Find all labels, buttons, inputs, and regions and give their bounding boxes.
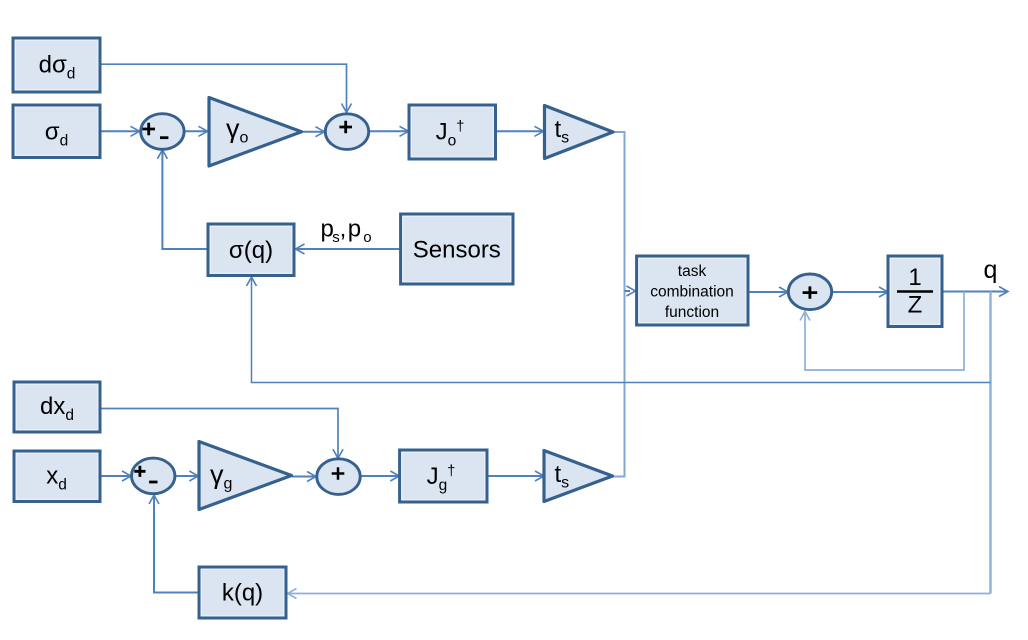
- summing junction S1 (plus minus): [141, 114, 184, 150]
- wire S4 to gain Gg: [175, 475, 197, 477]
- gain ts top: [545, 106, 614, 159]
- svg-text:function: function: [665, 304, 719, 321]
- wire q feedback vertical: [989, 292, 991, 594]
- input block x_d: [14, 451, 100, 502]
- wire Jo to ts top: [496, 130, 543, 132]
- svg-text:σ(q): σ(q): [229, 237, 273, 264]
- wire S2 to Jo: [369, 130, 407, 132]
- svg-text:k(q): k(q): [222, 580, 263, 607]
- svg-text:combination: combination: [650, 284, 734, 301]
- svg-text:task: task: [678, 263, 707, 280]
- input block dx_d: [14, 382, 100, 432]
- summing junction S4 (plus minus): [132, 458, 175, 494]
- wire xd to S4: [100, 475, 130, 477]
- wire Go to S2: [302, 131, 324, 133]
- wire 1/Z unit feedback loop: [805, 292, 964, 371]
- wire S3 to 1/Z: [832, 291, 887, 293]
- summing junction S3 (plus): [788, 274, 831, 310]
- wire ts outputs merge vertical: [613, 132, 625, 477]
- block Jg dagger: [400, 450, 487, 502]
- wire dsd to S2: [100, 64, 347, 111]
- wire task to S3: [748, 291, 787, 293]
- gain ts bottom: [544, 451, 613, 502]
- wire sigma(q) to S1 minus: [162, 151, 208, 249]
- wire Gg to S5: [292, 476, 315, 478]
- wire Jg to ts bottom: [487, 475, 543, 477]
- wire S5 to Jg: [360, 475, 398, 477]
- wire junction to task box: [625, 290, 631, 292]
- summing junction S5 (plus): [317, 459, 360, 495]
- gain gamma_o: [209, 98, 302, 167]
- block 1/Z delay: [888, 256, 942, 327]
- wire sd to S1: [100, 130, 138, 132]
- block sigma(q): [208, 224, 294, 276]
- wire q feedback to k(q): [289, 593, 991, 595]
- svg-text:Z: Z: [908, 292, 923, 319]
- block Jo dagger: [409, 105, 496, 159]
- svg-text:Sensors: Sensors: [413, 237, 501, 264]
- wire k(q) to S4 minus: [154, 497, 199, 593]
- wire q feedback to sigma(q): [252, 279, 991, 383]
- svg-text:ps,po: ps,po: [321, 216, 372, 247]
- wire Sensors to sigma(q): [297, 248, 401, 250]
- input block dsigma_d: [13, 38, 100, 92]
- wire 1/Z to output q: [942, 291, 1007, 293]
- gain gamma_g: [199, 442, 292, 510]
- wire S1 to gain Go: [185, 130, 207, 132]
- block Sensors: [401, 214, 513, 284]
- svg-text:1: 1: [908, 264, 921, 291]
- summing junction S2 (plus): [325, 114, 368, 150]
- block task combination function: [637, 256, 748, 325]
- svg-text:q: q: [984, 256, 998, 284]
- block k(q): [199, 567, 286, 618]
- wire dxd to S5: [100, 409, 338, 458]
- input block sigma_d: [13, 105, 100, 158]
